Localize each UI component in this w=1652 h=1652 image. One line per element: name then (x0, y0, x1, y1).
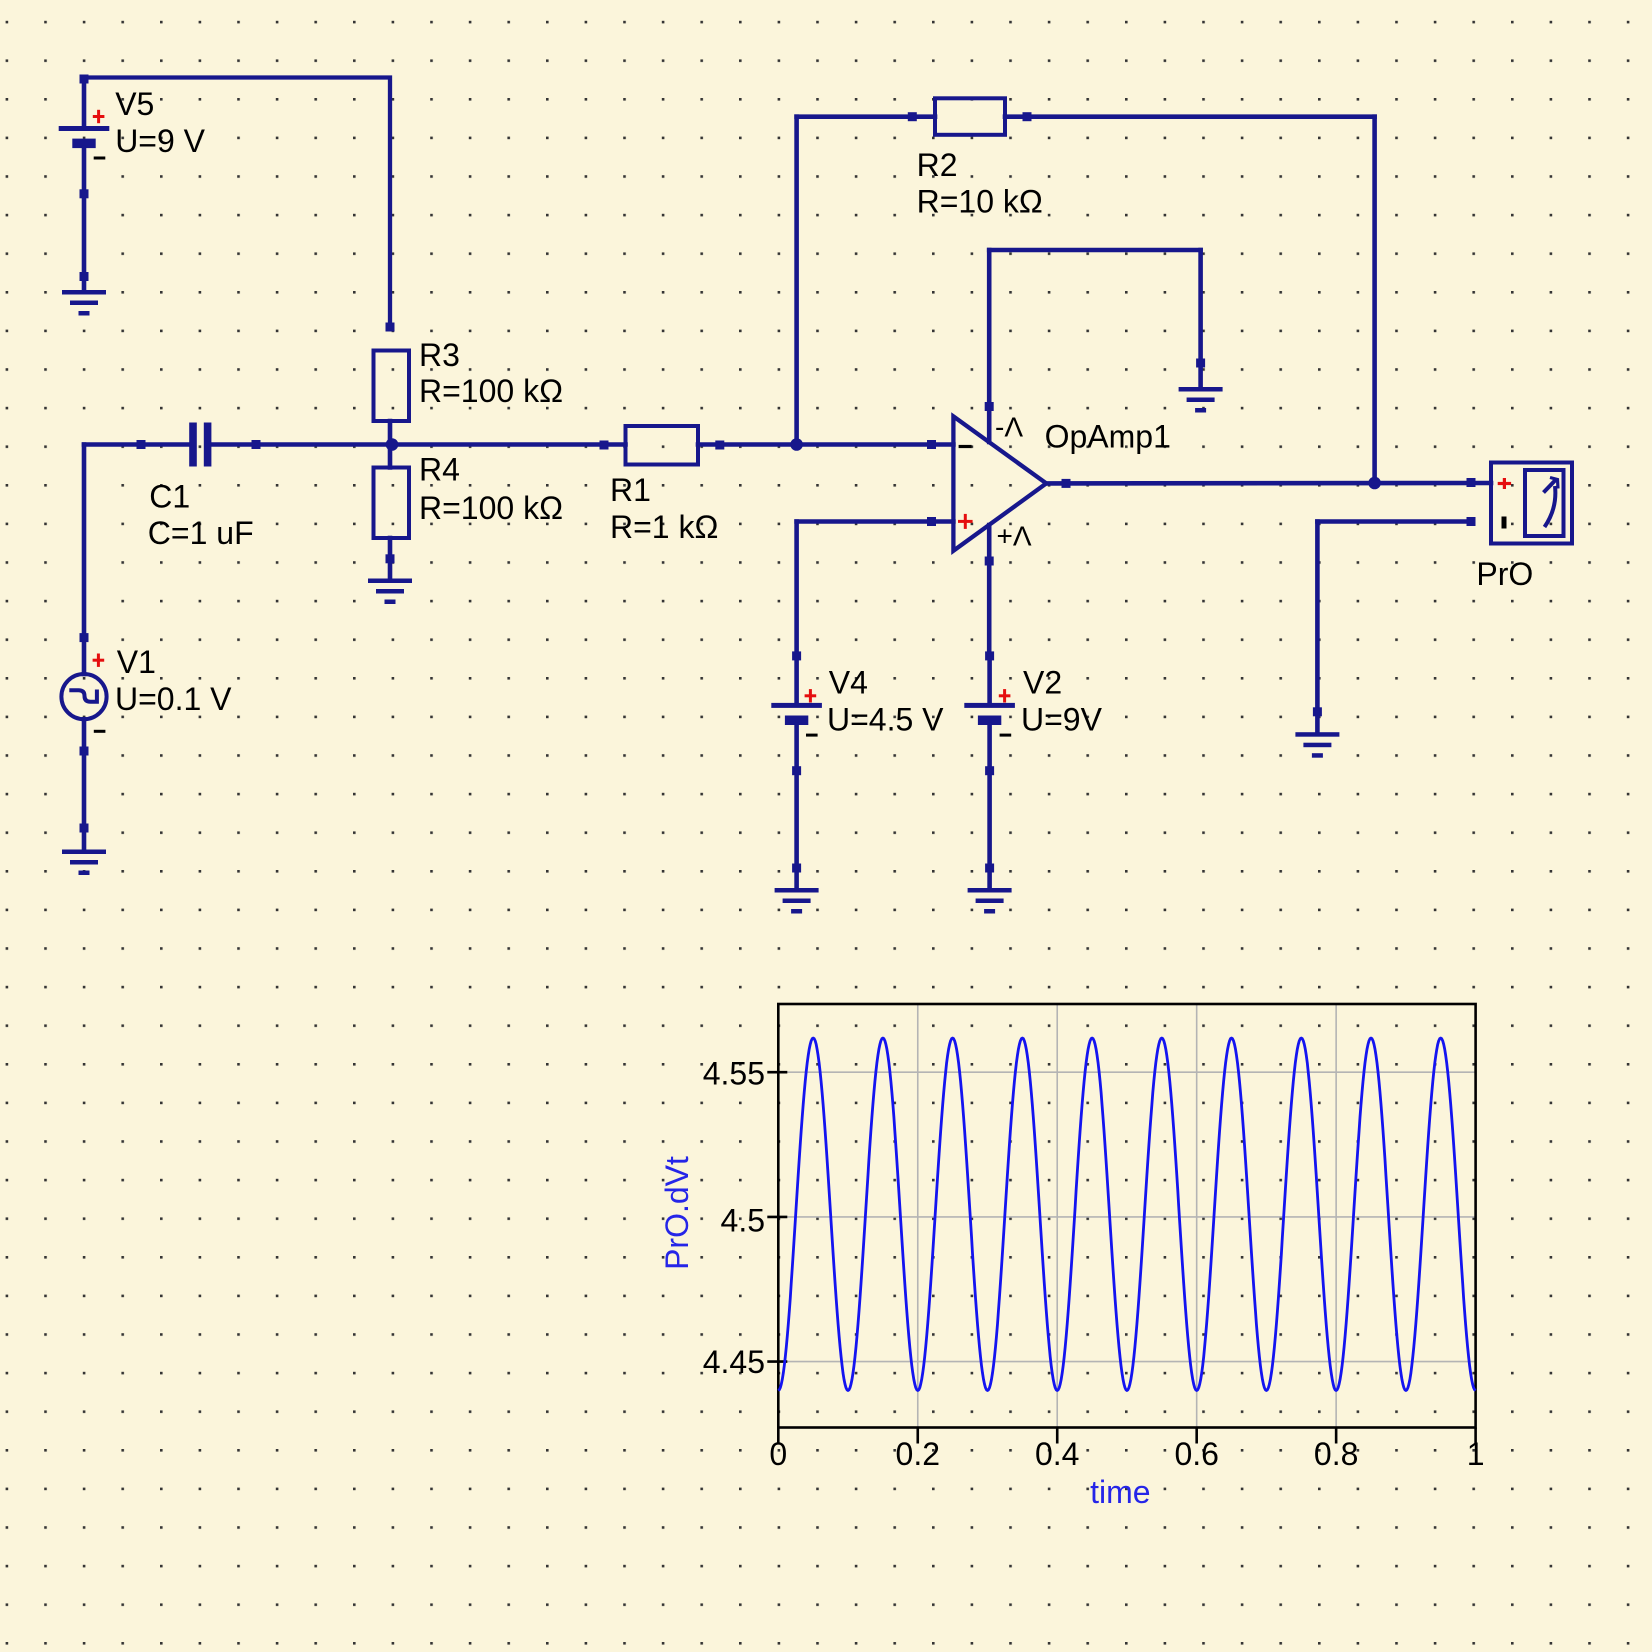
svg-text:U=9V: U=9V (1021, 702, 1103, 738)
svg-text:0.6: 0.6 (1174, 1436, 1218, 1472)
svg-text:0.2: 0.2 (896, 1436, 940, 1472)
svg-text:4.45: 4.45 (703, 1344, 765, 1380)
svg-text:4.55: 4.55 (703, 1055, 765, 1091)
svg-text:4.5: 4.5 (721, 1203, 765, 1239)
svg-text:R=10 kΩ: R=10 kΩ (917, 183, 1043, 219)
svg-text:U=9 V: U=9 V (115, 123, 205, 159)
svg-text:R=100 kΩ: R=100 kΩ (419, 490, 563, 526)
svg-text:V5: V5 (115, 86, 154, 122)
svg-text:U=0.1 V: U=0.1 V (115, 681, 232, 717)
svg-text:PrO: PrO (1476, 556, 1533, 592)
svg-text:0: 0 (769, 1436, 787, 1472)
svg-text:U=4.5 V: U=4.5 V (827, 702, 944, 738)
svg-text:+Λ: +Λ (997, 521, 1032, 552)
svg-text:1: 1 (1467, 1436, 1485, 1472)
svg-text:R4: R4 (419, 452, 460, 488)
svg-text:R2: R2 (917, 147, 958, 183)
svg-text:C1: C1 (149, 478, 190, 514)
svg-text:R3: R3 (419, 337, 460, 373)
svg-text:time: time (1090, 1474, 1150, 1510)
svg-text:V2: V2 (1023, 665, 1062, 701)
svg-text:0.4: 0.4 (1035, 1436, 1079, 1472)
svg-text:OpAmp1: OpAmp1 (1045, 419, 1171, 455)
svg-text:R1: R1 (610, 472, 651, 508)
svg-text:V4: V4 (829, 665, 868, 701)
svg-text:0.8: 0.8 (1314, 1436, 1358, 1472)
svg-text:C=1 uF: C=1 uF (148, 515, 254, 551)
svg-text:R=100 kΩ: R=100 kΩ (419, 373, 563, 409)
svg-text:-Λ: -Λ (995, 412, 1023, 443)
svg-text:V1: V1 (117, 644, 156, 680)
svg-text:R=1 kΩ: R=1 kΩ (610, 509, 718, 545)
svg-text:PrO.dVt: PrO.dVt (659, 1156, 695, 1270)
